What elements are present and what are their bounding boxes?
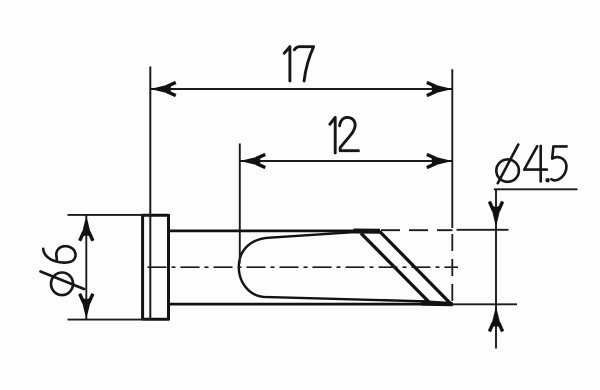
dim phi4.5 decimal point bbox=[545, 178, 549, 182]
blade flat face outline bbox=[239, 232, 427, 302]
dim 12 text bbox=[330, 117, 359, 152]
dim phi4.5 leader underline bbox=[494, 188, 578, 190]
collar outline bbox=[143, 215, 169, 319]
dim 17 arrow right bbox=[427, 82, 453, 95]
dim 17 arrow left bbox=[150, 82, 176, 95]
dim phi4.5 line bbox=[495, 189, 497, 348]
hidden end face dashed bbox=[451, 234, 453, 303]
dim phi6 line bbox=[85, 216, 87, 320]
dim phi4.5 top extension line bbox=[457, 229, 509, 231]
dim phi4.5 arrow up bbox=[489, 306, 502, 332]
dim 17 text bbox=[284, 47, 313, 81]
hidden top edge dashed bbox=[381, 229, 453, 231]
dim phi6 bottom extension line bbox=[68, 319, 151, 321]
shaft bottom edge bbox=[169, 303, 451, 306]
dim phi6 arrow up bbox=[80, 215, 93, 241]
dim 12 arrow left bbox=[240, 154, 265, 167]
dim phi6 text rotated bbox=[41, 246, 85, 295]
dim phi6 arrow down bbox=[80, 294, 93, 320]
dim phi4.5 bottom extension line bbox=[453, 303, 518, 305]
dim phi4.5 text bbox=[496, 145, 566, 184]
shaft top edge bbox=[169, 230, 381, 233]
blade bevel edge 2 bbox=[380, 231, 451, 303]
blade tip thick edge bbox=[421, 300, 453, 306]
dim 17 left extension line bbox=[149, 67, 151, 319]
dim 17 right extension line bbox=[451, 69, 453, 228]
dim 12 arrow right bbox=[427, 154, 453, 167]
dim 17 line bbox=[150, 88, 452, 90]
centerline bbox=[148, 266, 459, 268]
blade heel thick edge bbox=[354, 229, 381, 234]
dim 12 extension line bbox=[239, 144, 241, 264]
dim phi4.5 arrow down bbox=[489, 202, 502, 228]
blade bevel edge 1 bbox=[361, 233, 429, 301]
dim 12 line bbox=[240, 160, 452, 162]
dim phi6 top extension line bbox=[68, 214, 151, 216]
